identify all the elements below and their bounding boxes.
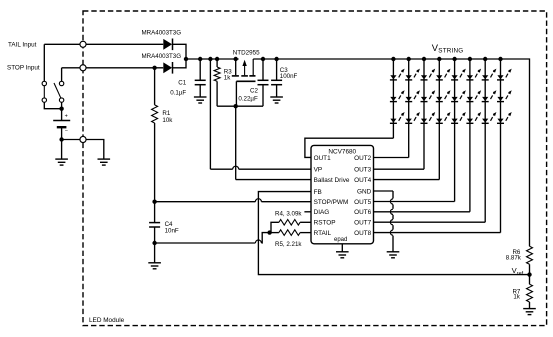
pin OUT3 xyxy=(354,167,371,174)
pin OUT4 xyxy=(354,177,371,184)
ground epad xyxy=(336,252,349,258)
pin FB xyxy=(314,189,322,196)
svg-text:MRA4003T3G: MRA4003T3G xyxy=(142,30,182,37)
wire STOP/PWM to IC xyxy=(155,199,311,202)
svg-text:R5, 2.21k: R5, 2.21k xyxy=(275,241,302,248)
pin OUT2 xyxy=(354,155,371,162)
svg-text:C1: C1 xyxy=(178,80,186,87)
connector module return on boundary xyxy=(80,136,86,142)
wire C3 top lead xyxy=(276,59,278,80)
svg-text:+: + xyxy=(65,114,68,120)
label C3 value xyxy=(280,73,298,80)
ground C1 xyxy=(194,97,207,103)
pin OUT7 xyxy=(354,220,371,227)
svg-text:OUT6: OUT6 xyxy=(354,209,371,216)
wire battery - to ground node xyxy=(61,127,63,139)
pin RSTOP xyxy=(314,220,336,227)
svg-text:STOP Input: STOP Input xyxy=(7,65,40,72)
transistor Q1 body arrow xyxy=(241,60,248,76)
pin OUT6 xyxy=(354,209,371,216)
wire OUT1 to LED string 1 xyxy=(305,138,394,157)
label R6 value xyxy=(506,254,522,261)
wire OUT2 to LED string 2 xyxy=(374,157,409,159)
junction Q1 source xyxy=(234,57,238,61)
label NTD2955 xyxy=(233,50,260,57)
junction C4 bottom xyxy=(152,241,156,245)
wire D1 cathode to rail xyxy=(173,44,186,59)
battery B1 xyxy=(53,114,70,135)
svg-text:1k: 1k xyxy=(513,293,520,300)
svg-text:VP: VP xyxy=(314,167,323,174)
pin OUT5 xyxy=(354,199,371,206)
wire GND pin to ground xyxy=(374,191,394,252)
wire R3 bottom lead xyxy=(216,81,218,106)
wire R1 to C4 xyxy=(154,123,156,223)
wire battery node down xyxy=(61,140,63,160)
wire TAIL input to diode D1 xyxy=(44,43,163,45)
connector STOP on module boundary xyxy=(80,65,86,71)
wire C2 top lead xyxy=(262,59,264,80)
label C2 xyxy=(250,87,258,94)
svg-text:NTD2955: NTD2955 xyxy=(233,50,260,57)
svg-text:OUT3: OUT3 xyxy=(354,167,371,174)
LED string 6 xyxy=(466,57,481,212)
wire C1 top lead xyxy=(199,59,201,80)
wire R3 top lead xyxy=(216,59,218,67)
svg-text:−: − xyxy=(65,129,68,135)
pin DIAG xyxy=(314,209,330,216)
wire Vref to R7 xyxy=(529,275,531,285)
capacitor C3 xyxy=(271,80,282,84)
pin Ballast Drive xyxy=(314,177,350,184)
label LED Module xyxy=(89,317,125,324)
resistor R7 xyxy=(527,284,533,302)
ground C4 xyxy=(148,263,161,269)
wire VP horizontal to IC xyxy=(210,166,311,169)
resistor R6 xyxy=(527,246,533,264)
resistor R1 xyxy=(152,105,158,123)
wire R7 to ground xyxy=(529,302,531,309)
svg-text:LED Module: LED Module xyxy=(89,317,125,324)
ground GND pin xyxy=(387,252,400,258)
net VSTRING xyxy=(432,42,464,55)
op-amp U1 NCV7680 body xyxy=(311,145,374,243)
svg-text:RTAIL: RTAIL xyxy=(314,230,332,237)
label TAIL Input xyxy=(8,42,37,49)
wire SW1 bottom to battery node xyxy=(44,102,61,108)
wire FB to Vref divider xyxy=(258,192,529,275)
resistor R5 xyxy=(279,230,300,236)
junction C1 xyxy=(198,57,202,61)
wire R1 top lead xyxy=(154,68,156,105)
pin OUT8 xyxy=(354,230,371,237)
wire OUT5 to LED string 5 xyxy=(374,201,455,203)
svg-text:OUT2: OUT2 xyxy=(354,155,371,162)
LED string 5 xyxy=(451,57,466,202)
label NCV7680 xyxy=(328,148,356,155)
label R7 value xyxy=(513,293,520,300)
capacitor C4 xyxy=(149,223,160,227)
ground module return xyxy=(98,159,111,165)
svg-text:R4, 3.09k: R4, 3.09k xyxy=(275,210,302,217)
wire ballast drive vertical xyxy=(235,106,237,179)
svg-text:C2: C2 xyxy=(250,87,258,94)
capacitor C1 xyxy=(195,80,206,84)
svg-text:epad: epad xyxy=(334,237,347,243)
label STOP Input xyxy=(7,65,40,72)
label R7 xyxy=(512,289,520,296)
pin VP xyxy=(314,167,323,174)
capacitor C2 xyxy=(258,80,269,84)
wire R5 to RTAIL pin xyxy=(300,232,311,234)
switch SW2 stop (open blade) xyxy=(54,81,64,102)
wire C4 bottom lead xyxy=(154,227,156,243)
svg-text:ref: ref xyxy=(517,271,524,277)
svg-text:0.22µF: 0.22µF xyxy=(238,96,258,103)
LED string 7 xyxy=(482,57,497,222)
wire OUT6 to LED string 6 xyxy=(374,211,470,213)
label epad xyxy=(334,237,347,243)
label R1 xyxy=(162,110,170,117)
transistor Q1 drain stub xyxy=(249,59,255,76)
label C2 value xyxy=(238,96,258,103)
resistor R4 xyxy=(279,220,300,226)
svg-text:1k: 1k xyxy=(224,74,231,81)
LED string 4 xyxy=(436,57,451,180)
transistor Q1 NTD2955 source stub xyxy=(232,59,239,76)
wire RSTOP/RTAIL return xyxy=(155,233,268,243)
wire VSTRING rail xyxy=(253,59,529,246)
ground R7 xyxy=(523,309,536,315)
junction C3 xyxy=(274,57,278,61)
svg-text:OUT1: OUT1 xyxy=(314,155,331,162)
svg-text:DIAG: DIAG xyxy=(314,209,330,216)
svg-text:OUT8: OUT8 xyxy=(354,230,371,237)
junction R1 top xyxy=(152,66,156,70)
svg-text:STRING: STRING xyxy=(438,48,463,55)
svg-text:NCV7680: NCV7680 xyxy=(328,148,356,155)
wire battery rail xyxy=(186,58,239,60)
svg-text:OUT4: OUT4 xyxy=(354,177,371,184)
svg-text:10nF: 10nF xyxy=(165,228,179,235)
LED string 1 xyxy=(390,57,405,138)
wire C4 to ground xyxy=(154,243,156,263)
label C4 xyxy=(165,221,173,228)
wire OUT8 to LED string 8 xyxy=(374,232,501,234)
junction R4/R5 node xyxy=(267,230,271,234)
wire C3 bottom lead xyxy=(276,85,278,97)
svg-text:RSTOP: RSTOP xyxy=(314,220,336,227)
wire ballast drive to IC xyxy=(236,179,311,181)
label C3 xyxy=(280,67,288,74)
svg-text:OUT5: OUT5 xyxy=(354,199,371,206)
wire D2 cathode to rail xyxy=(173,59,186,68)
wire epad to ground xyxy=(341,244,343,252)
junction C2 xyxy=(261,57,265,61)
svg-text:GND: GND xyxy=(357,188,372,195)
label MRA4003T3G (D1) xyxy=(142,30,182,37)
junction gate node xyxy=(234,104,238,108)
label R3 xyxy=(224,69,232,76)
label R5 xyxy=(275,241,302,248)
LED string 2 xyxy=(405,57,420,158)
wire R4 to RSTOP pin xyxy=(300,221,311,223)
wire STOP down to switch SW2 xyxy=(61,68,63,82)
wire gate node horizontal xyxy=(217,105,263,107)
label R6 xyxy=(512,249,520,256)
wire battery node to module return connector xyxy=(62,139,80,141)
label R4 xyxy=(275,210,302,217)
label C1 xyxy=(178,80,186,87)
wire OUT4 to LED string 4 xyxy=(374,179,440,181)
pin RTAIL xyxy=(314,230,332,237)
wire R6 to Vref xyxy=(529,264,531,274)
wire return connector to ground xyxy=(86,140,104,160)
resistor R3 xyxy=(214,67,220,81)
label C4 value xyxy=(165,228,179,235)
wire to battery + xyxy=(61,109,63,121)
LED string 3 xyxy=(421,57,436,169)
label MRA4003T3G (D2) xyxy=(142,53,182,60)
wire C1 bottom lead xyxy=(199,85,201,97)
wire OUT7 to LED string 7 xyxy=(374,221,486,223)
transistor Q1 gate bar xyxy=(236,80,255,82)
LED Module dashed boundary box xyxy=(83,11,547,326)
junction switches-battery xyxy=(59,107,63,111)
ground battery xyxy=(55,159,68,165)
junction diode-OR node xyxy=(184,57,188,61)
svg-text:TAIL Input: TAIL Input xyxy=(8,42,37,49)
wire TAIL down to switch SW1 xyxy=(43,44,45,81)
svg-text:100nF: 100nF xyxy=(280,73,298,80)
wire OUT3 to LED string 3 xyxy=(374,168,425,170)
label R1 value xyxy=(162,117,173,124)
pin OUT1 xyxy=(314,155,331,162)
svg-text:FB: FB xyxy=(314,189,322,196)
diode D1 MRA4003T3G xyxy=(163,39,172,51)
node Vref xyxy=(512,266,532,277)
diode D2 MRA4003T3G xyxy=(163,62,172,74)
wire C2 bottom lead xyxy=(262,85,264,107)
svg-text:MRA4003T3G: MRA4003T3G xyxy=(142,53,182,60)
label R3 value xyxy=(224,74,231,81)
wire R5 left lead xyxy=(270,232,279,234)
junction STOP/PWM tap xyxy=(152,200,156,204)
connector TAIL on module boundary xyxy=(80,41,86,47)
wire SW2 bottom to battery node xyxy=(61,102,63,108)
switch SW1 tail (closed) xyxy=(42,81,46,102)
wire DIAG stub xyxy=(304,211,311,213)
wire STOP input to diode D2 xyxy=(62,67,164,69)
svg-text:8.87k: 8.87k xyxy=(506,254,522,261)
wire VP vertical xyxy=(209,59,211,169)
wire R4 left lead xyxy=(271,222,279,232)
svg-text:Ballast Drive: Ballast Drive xyxy=(314,177,350,184)
junction VP xyxy=(208,57,212,61)
svg-text:OUT7: OUT7 xyxy=(354,220,371,227)
ground C3 xyxy=(270,97,283,103)
junction R3 xyxy=(215,57,219,61)
svg-text:10k: 10k xyxy=(162,117,173,124)
pin STOP/PWM xyxy=(314,199,349,206)
LED string 8 xyxy=(497,57,512,233)
label C1 value xyxy=(170,90,186,97)
wire gate bar to gate node xyxy=(235,81,237,106)
junction battery return xyxy=(59,137,63,141)
pin GND xyxy=(357,188,372,195)
svg-text:STOP/PWM: STOP/PWM xyxy=(314,199,349,206)
svg-text:0.1µF: 0.1µF xyxy=(170,90,186,97)
